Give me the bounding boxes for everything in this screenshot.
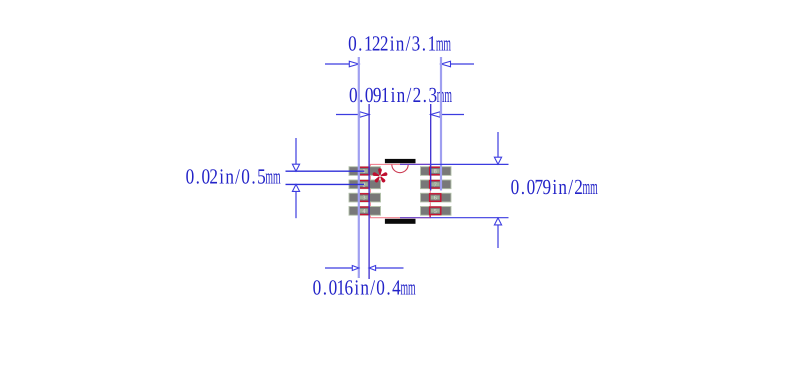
svg-text:0.091in/2.3: 0.091in/2.3 [349, 83, 437, 107]
pin 7 outline [430, 181, 441, 189]
dim line 3.1 left [325, 63, 350, 65]
pad 4 [349, 207, 381, 216]
pin 3 outline [359, 194, 369, 202]
svg-text:8: 8 [434, 169, 437, 175]
dim line 0.4 right [376, 267, 404, 269]
extension line V3 (2.3mm left) [368, 104, 370, 279]
pin 4 outline [359, 207, 369, 215]
pitch line upper [286, 170, 365, 172]
dim line 2.3 left [336, 114, 360, 116]
pad 5 [421, 207, 452, 216]
svg-text:5: 5 [434, 209, 437, 215]
2mm dim vertical upper [497, 132, 499, 157]
svg-text:7: 7 [434, 183, 437, 189]
dim line 3.1 right [450, 63, 474, 65]
pin 2 outline [359, 181, 369, 189]
svg-text:0.016in/0.4: 0.016in/0.4 [313, 275, 401, 299]
svg-text:mm: mm [436, 32, 451, 56]
dimension label 0.02in/0.5mm [186, 164, 281, 188]
dim line 0.4 left [325, 267, 352, 269]
extension line V2 (3.1mm right) [440, 57, 442, 191]
pad 1 [349, 167, 381, 176]
pin 8 outline [430, 167, 441, 175]
pad 8 [421, 167, 452, 176]
dimension label 0.091in/2.3mm [349, 83, 452, 107]
pad 6 [421, 193, 452, 202]
bottom assembly bar [385, 219, 416, 224]
svg-text:mm: mm [583, 175, 598, 199]
dimension label 0.016in/0.4mm [313, 275, 416, 299]
pin-1 marker asterisk [373, 168, 388, 182]
dim line 2.3 right [440, 114, 464, 116]
pin 5 outline [430, 207, 441, 215]
pin 8 inner band [431, 169, 440, 173]
svg-text:2: 2 [363, 183, 366, 189]
package body outline [370, 164, 430, 217]
top assembly bar [385, 159, 416, 163]
pin 3 inner band [360, 196, 368, 200]
pad 7 [421, 180, 452, 189]
body right edge stub [429, 215, 431, 218]
svg-text:3: 3 [363, 196, 366, 202]
2mm dim vertical lower [494, 218, 501, 225]
svg-text:mm: mm [265, 164, 280, 188]
svg-text:4: 4 [363, 209, 366, 215]
body top extension (purple overlap) [400, 163, 430, 165]
pin 6 outline [430, 194, 441, 202]
pin-1 notch arc [392, 165, 408, 173]
extension line V4 (2.3mm right) [430, 104, 432, 191]
svg-text:1: 1 [363, 169, 366, 175]
pitch line lower [286, 183, 365, 185]
pin 6 inner band [431, 196, 440, 200]
dimension label 0.079in/2mm [511, 175, 598, 199]
pitch dim vertical upper [295, 138, 297, 164]
pin 1 outline [359, 167, 369, 175]
pin 5 inner band [431, 209, 440, 213]
body bottom extension (purple overlap) [400, 217, 430, 219]
pin 1 inner band [360, 169, 368, 173]
pin 2 inner band [360, 182, 368, 186]
dimension label 0.122in/3.1mm [348, 32, 451, 56]
pin 4 inner band [360, 209, 368, 213]
svg-text:0.122in/3.1: 0.122in/3.1 [348, 32, 436, 56]
svg-text:6: 6 [434, 196, 437, 202]
svg-text:0.079in/2: 0.079in/2 [511, 175, 583, 199]
svg-text:mm: mm [437, 83, 452, 107]
pad 3 [349, 193, 381, 202]
pin 7 inner band [431, 182, 440, 186]
pitch dim vertical lower [292, 184, 299, 191]
svg-text:0.02in/0.5: 0.02in/0.5 [186, 164, 266, 188]
extension line V1 (3.1mm left) [358, 57, 360, 278]
svg-text:mm: mm [400, 275, 415, 299]
pad 2 [349, 180, 381, 189]
